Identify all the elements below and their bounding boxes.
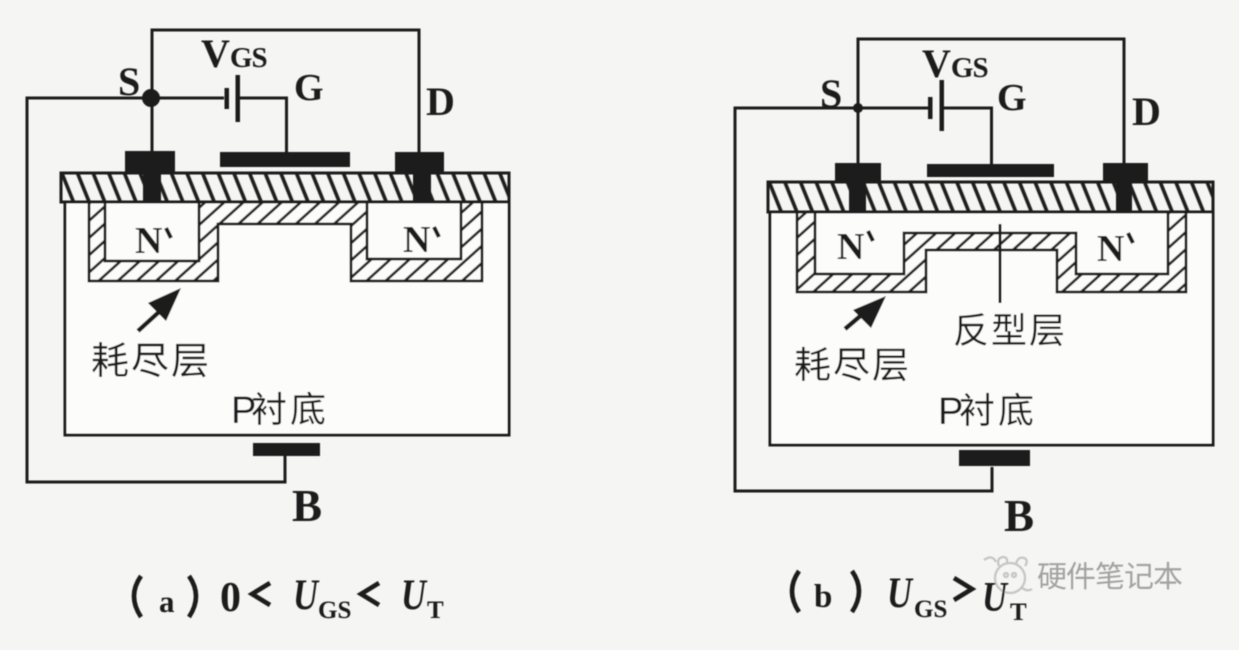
drain contact electrode (b)	[1103, 163, 1148, 181]
svg-text:S: S	[820, 71, 842, 116]
svg-text:N: N	[403, 219, 430, 261]
svg-text:N: N	[837, 226, 864, 268]
drain contact electrode (a)	[395, 152, 444, 173]
watermark logo doodle	[984, 557, 1032, 593]
svg-text:T: T	[427, 597, 444, 624]
wire: outer loop S-to-B (a)	[27, 98, 285, 482]
arrow to depletion layer (a)	[138, 288, 181, 331]
label P substrate P衬底 (b)	[938, 391, 1032, 433]
wire: node to battery (a)	[151, 97, 224, 100]
wire: battery to gate (b)	[944, 108, 992, 165]
svg-text:N: N	[135, 220, 162, 262]
label N+ right (a)	[403, 219, 439, 261]
svg-text:U: U	[293, 572, 320, 619]
label 耗尽层 depletion layer (a)	[92, 342, 207, 377]
label 耗尽层 depletion layer (b)	[795, 347, 907, 381]
label P substrate P衬底 (a)	[231, 390, 324, 432]
inversion layer callout line (b)	[999, 224, 1002, 303]
caption (a) 0<UGS<UT	[134, 572, 444, 624]
battery VGS (a): long plate	[236, 75, 241, 122]
caption (b) UGS>UT	[792, 570, 1027, 626]
substrate body P (b)	[770, 212, 1213, 445]
wire: battery to gate (a)	[239, 98, 287, 154]
label 反型层 inversion layer (b)	[955, 313, 1063, 346]
svg-text:b: b	[814, 579, 832, 615]
bulk contact electrode B (b)	[959, 450, 1030, 466]
svg-text:G: G	[997, 77, 1027, 119]
svg-text:P: P	[938, 391, 963, 433]
label N+ left (b)	[837, 226, 873, 268]
svg-text:D: D	[426, 79, 455, 124]
bulk contact electrode B (a)	[253, 443, 320, 456]
gate electrode (b)	[927, 164, 1054, 177]
label N+ right (b)	[1097, 228, 1133, 270]
node S junction dot (a)	[142, 89, 160, 107]
watermark text 硬件笔记本	[1038, 562, 1182, 590]
svg-text:GS: GS	[318, 597, 351, 624]
svg-text:D: D	[1132, 89, 1161, 134]
svg-text:G: G	[294, 67, 324, 109]
svg-text:S: S	[118, 59, 140, 104]
depletion region hatched (b)	[797, 212, 1186, 292]
substrate body P (a)	[65, 202, 509, 435]
svg-text:U: U	[982, 575, 1009, 621]
node S junction dot (b)	[853, 103, 863, 113]
battery VGS (b): long plate	[940, 80, 945, 131]
gate electrode (a)	[220, 152, 350, 167]
label N+ left (a)	[135, 220, 171, 262]
source contact electrode (a)	[125, 151, 175, 174]
wire: top loop S-to-D (b)	[858, 39, 1124, 164]
source contact electrode (b)	[835, 163, 881, 183]
arrow to depletion layer (b)	[845, 296, 886, 329]
battery VGS (b): short plate	[928, 97, 933, 119]
svg-text:T: T	[1010, 599, 1027, 626]
wire: node to battery (b)	[858, 107, 928, 110]
wire: top loop S-to-D (a)	[152, 30, 419, 172]
svg-text:B: B	[1004, 491, 1034, 541]
svg-text:U: U	[887, 570, 914, 617]
svg-text:a: a	[159, 584, 175, 619]
oxide layer SiO2 hatched (b)	[768, 182, 1213, 212]
oxide layer SiO2 hatched (a)	[61, 173, 509, 202]
wire: outer loop S-to-B (b)	[735, 108, 992, 491]
svg-text:GS: GS	[914, 596, 947, 623]
svg-text:0: 0	[220, 575, 241, 621]
svg-text:N: N	[1097, 228, 1124, 270]
svg-text:U: U	[401, 572, 428, 619]
svg-text:B: B	[292, 481, 322, 531]
svg-text:P: P	[231, 390, 256, 432]
depletion region hatched (a)	[89, 202, 482, 281]
battery VGS (a): short plate	[225, 88, 230, 109]
